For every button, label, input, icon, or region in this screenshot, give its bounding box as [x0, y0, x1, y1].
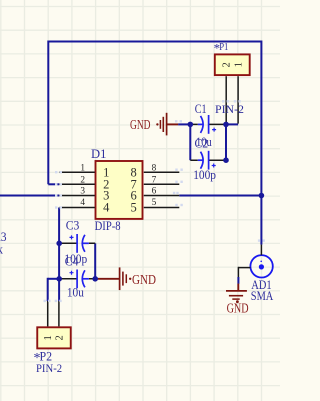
wire C4 row left: [48, 278, 60, 280]
D1 pin 7: [144, 183, 180, 185]
svg-text:5: 5: [130, 201, 136, 215]
D1 pin 3: [59, 195, 95, 197]
C2 plus: [212, 164, 216, 168]
P1 pin 2 (left): [225, 76, 227, 124]
svg-text:8: 8: [152, 164, 157, 174]
svg-text:P1: P1: [219, 42, 228, 53]
D1 pin 2: [59, 183, 95, 185]
svg-text:100p: 100p: [193, 167, 216, 182]
connector P1 body: [215, 54, 250, 75]
D1 DIP-8 body: [96, 161, 143, 219]
wire C1 right down to C2: [225, 124, 227, 160]
svg-text:2: 2: [54, 335, 65, 340]
wire GND to C1: [178, 123, 190, 125]
svg-text:3: 3: [80, 186, 85, 196]
capacitor C4 pins: [59, 278, 95, 280]
D1 pin 4: [59, 207, 95, 209]
power port GND (near C1, pointing left): [160, 113, 178, 136]
svg-text:1: 1: [80, 164, 85, 174]
P1 pin 1 (right): [237, 76, 239, 123]
capacitor C4 plates: [76, 270, 78, 289]
P2 pin 2 (right): [58, 301, 60, 326]
wire SMA gnd: [237, 267, 239, 277]
svg-text:DIP-8: DIP-8: [95, 219, 121, 233]
power port GND (near C4, pointing right): [98, 267, 127, 290]
antenna AD1 SMA circle: [250, 255, 272, 277]
svg-text:2: 2: [222, 62, 233, 67]
svg-text:1: 1: [234, 62, 245, 67]
hotspot markers: [44, 100, 265, 302]
D1 pin names inside: [103, 165, 137, 214]
connector P2 body: [37, 327, 71, 348]
capacitor C1 pins: [190, 123, 226, 125]
C3 plus: [70, 235, 74, 239]
svg-text:4: 4: [103, 201, 110, 215]
D1 pin 8: [144, 171, 180, 173]
svg-text:5: 5: [152, 198, 157, 208]
power port GND (below SMA, pointing down): [226, 284, 247, 300]
svg-text:D1: D1: [91, 147, 106, 161]
wire top loop horizontal: [48, 41, 261, 43]
svg-text:GND: GND: [132, 272, 156, 287]
capacitor C3 plates: [76, 234, 78, 253]
wire pin4 down: [58, 208, 60, 279]
svg-text:C3: C3: [66, 217, 80, 232]
svg-text:7: 7: [152, 175, 157, 185]
wire down to P2 pin1: [47, 278, 49, 301]
svg-text:10k: 10k: [0, 241, 3, 256]
wire C3 right vertical: [94, 243, 96, 278]
D1 pin 1: [59, 171, 95, 173]
capacitor C3 pins: [59, 242, 95, 244]
svg-text:C4: C4: [65, 253, 79, 268]
svg-text:C1: C1: [195, 101, 207, 116]
svg-text:1: 1: [43, 335, 54, 340]
svg-text:GND: GND: [227, 300, 249, 315]
svg-text:SMA: SMA: [251, 288, 274, 303]
svg-text:2: 2: [80, 175, 85, 185]
wire top loop left vertical: [47, 41, 49, 185]
svg-text:GND: GND: [130, 117, 151, 132]
capacitor C2 plates: [201, 152, 204, 169]
wire pin6 to right: [179, 195, 261, 197]
svg-text:6: 6: [152, 186, 157, 196]
D1 pin 5: [144, 207, 180, 209]
wire pin3 to left edge: [0, 195, 59, 197]
D1 pin numbers outside: [80, 164, 156, 209]
C4 plus: [70, 271, 74, 275]
svg-text:PIN-2: PIN-2: [215, 102, 244, 116]
wire P1 pins joining: [226, 123, 238, 125]
AD1 pin top: [260, 245, 262, 256]
wire top loop right vertical: [260, 41, 262, 245]
wire down to P2 pin2: [58, 279, 60, 301]
svg-text:PIN-2: PIN-2: [36, 361, 62, 375]
capacitor C2 pins: [190, 159, 226, 161]
svg-text:C2: C2: [195, 135, 209, 150]
P2 pin 1 (left): [47, 301, 49, 326]
svg-text:4: 4: [80, 198, 85, 208]
AD1 pin left: [238, 267, 250, 269]
svg-text:10u: 10u: [67, 284, 84, 299]
D1 pin 6: [144, 195, 180, 197]
wire to pin 2: [48, 183, 59, 185]
wire C1 left down to C2: [189, 124, 191, 160]
C1 plus: [212, 128, 216, 132]
capacitor C1 plates: [201, 116, 204, 133]
